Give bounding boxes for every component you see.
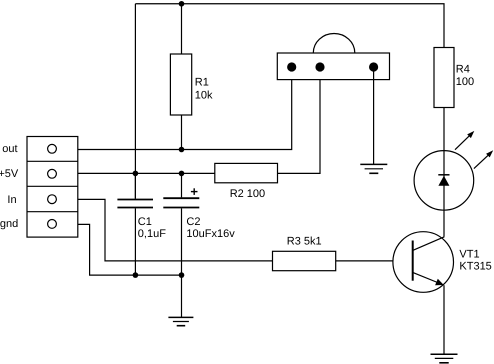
label C1 0,1uF bbox=[138, 216, 166, 240]
ground under emitter bbox=[431, 354, 458, 363]
wire left drop from rail to C1 bbox=[134, 4, 136, 199]
capacitor C2 polarized bbox=[163, 173, 199, 317]
transistor VT1 circle bbox=[393, 232, 454, 293]
sensor pin 2 bbox=[315, 62, 324, 71]
label R3 5k1 bbox=[287, 236, 322, 248]
resistor R1 bbox=[170, 54, 191, 115]
LED emission arrow 1 bbox=[455, 131, 474, 150]
pin label gnd bbox=[0, 218, 18, 230]
wire sensor pin3 to ground bbox=[373, 67, 375, 164]
wire R3 to transistor base bbox=[336, 260, 393, 262]
svg-text:+5V: +5V bbox=[0, 168, 19, 180]
pin label +5V bbox=[0, 168, 19, 180]
svg-text:C1: C1 bbox=[138, 216, 152, 228]
svg-text:VT1: VT1 bbox=[459, 249, 479, 261]
label R4 100 bbox=[456, 64, 474, 89]
sensor pin 1 bbox=[287, 62, 296, 71]
svg-text:R4: R4 bbox=[456, 64, 470, 76]
svg-text:R3 5k1: R3 5k1 bbox=[287, 236, 322, 248]
sensor module body bbox=[277, 34, 389, 80]
LED diode triangle bbox=[438, 176, 449, 186]
LED diode cathode bar bbox=[438, 174, 449, 176]
junction C2 gnd bbox=[179, 272, 185, 278]
svg-text:100: 100 bbox=[456, 76, 474, 88]
transistor base bar bbox=[412, 241, 414, 281]
label VT1 KT315 bbox=[459, 249, 491, 273]
svg-text:10k: 10k bbox=[195, 89, 213, 101]
svg-text:gnd: gnd bbox=[0, 218, 18, 230]
wire R4 through LED to collector bbox=[443, 108, 445, 237]
LED emission arrow 2 bbox=[474, 150, 493, 168]
pin label In bbox=[7, 194, 16, 206]
wire R1 bottom stub bbox=[181, 115, 183, 150]
label R1 10k bbox=[195, 77, 213, 102]
wire +5V row bbox=[78, 172, 215, 174]
wire out net bbox=[78, 67, 292, 150]
svg-text:out: out bbox=[2, 143, 17, 155]
junction R1 out bbox=[179, 147, 185, 153]
resistor R4 bbox=[434, 48, 454, 108]
wire R2 to sensor middle pin bbox=[278, 67, 321, 173]
junction C1 +5V bbox=[133, 171, 139, 177]
ground main under C2 bbox=[168, 317, 193, 325]
wire top +5V rail bbox=[135, 4, 444, 48]
svg-text:In: In bbox=[7, 194, 16, 206]
junction C1 gnd bbox=[133, 272, 139, 278]
label C2 10uFx16v bbox=[186, 216, 235, 240]
wire gnd net bbox=[78, 224, 182, 275]
pin label out bbox=[2, 143, 17, 155]
sensor pin 3 bbox=[369, 62, 378, 71]
svg-text:R1: R1 bbox=[195, 77, 209, 89]
wire emitter to ground bbox=[443, 285, 445, 354]
resistor R2 bbox=[215, 163, 278, 182]
connector X1 bbox=[27, 137, 78, 238]
plus polarity mark C2 bbox=[191, 188, 198, 195]
label R2 100 bbox=[230, 188, 265, 200]
svg-text:10uFx16v: 10uFx16v bbox=[186, 228, 235, 240]
ground under sensor bbox=[360, 164, 387, 173]
transistor emitter line with arrow bbox=[413, 272, 444, 285]
resistor R3 bbox=[273, 251, 336, 270]
svg-text:R2 100: R2 100 bbox=[230, 188, 265, 200]
transistor collector line bbox=[413, 237, 445, 251]
wire In net bbox=[78, 199, 273, 261]
svg-text:C2: C2 bbox=[186, 216, 200, 228]
svg-text:0,1uF: 0,1uF bbox=[138, 228, 166, 240]
wire R1 top stub bbox=[181, 4, 183, 54]
LED HL1 circle bbox=[414, 151, 474, 211]
junction C2 +5V bbox=[179, 171, 185, 177]
capacitor C1 bbox=[117, 173, 153, 275]
svg-text:KT315: KT315 bbox=[459, 261, 491, 273]
junction R1 top rail bbox=[179, 1, 185, 7]
